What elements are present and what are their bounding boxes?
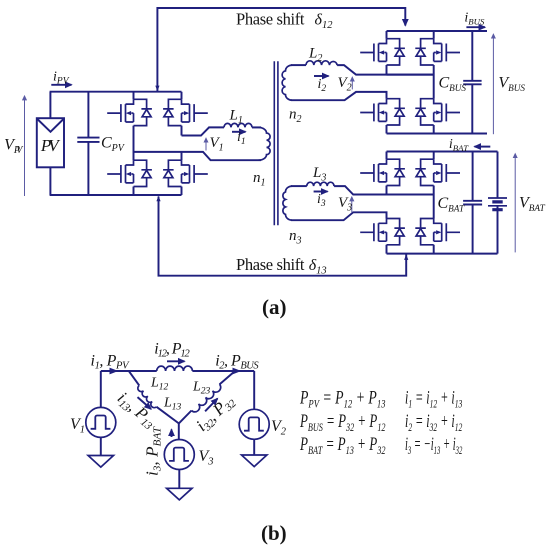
svg-text:L12: L12 [150,376,169,393]
inductor L23 [192,384,223,414]
svg-text:VBUS: VBUS [498,75,525,94]
svg-text:CBAT: CBAT [438,195,466,214]
wire branch L23 (node2 to node3) [179,371,235,423]
inductor L1 [224,123,252,127]
svg-text:V3: V3 [338,195,352,214]
capacitor CBUS [463,31,481,134]
svg-text:VPV: VPV [4,137,24,157]
svg-text:V2: V2 [338,75,352,94]
arrow VPV [24,97,26,197]
svg-text:(b): (b) [261,521,287,545]
ground V3 [167,488,192,500]
svg-text:CBUS: CBUS [439,75,467,94]
svg-text:i13, P13: i13, P13 [113,388,161,433]
wire bridge1 output upper lead [182,127,225,135]
bridge 2 left leg wire [386,31,388,134]
svg-text:δ13: δ13 [309,257,327,277]
inductor L12 [157,366,193,371]
wire L1 to winding [252,126,261,128]
svg-text:n1: n1 [253,170,266,189]
svg-text:δ12: δ12 [315,12,334,32]
transformer winding n2 [282,65,292,100]
svg-text:PBUS = P32 + P12: PBUS = P32 + P12 [299,411,385,434]
svg-text:V1: V1 [70,416,85,436]
svg-text:iBAT: iBAT [449,137,469,153]
arrowhead phase-shift into bridge1 top rail [155,86,159,92]
battery VBAT symbol [488,152,507,254]
transformer core [274,61,278,225]
arrow i12 curved [167,360,185,362]
wire V3 to ground [178,470,180,489]
bridge 2 rails [387,31,488,134]
svg-text:i3, PBAT: i3, PBAT [143,426,164,476]
svg-text:i12, P12: i12, P12 [154,341,190,360]
svg-text:V3: V3 [199,448,214,468]
transistor bridge3 lower-left [360,219,405,245]
PV module symbol [37,118,64,167]
inductor L13 [136,385,156,409]
transistor bridge1 upper-right [163,99,208,125]
svg-text:iBUS: iBUS [464,11,485,27]
transistor bridge3 upper-left [360,159,405,185]
svg-text:Phase shift: Phase shift [236,10,305,29]
bridge 1 right leg wire [181,92,183,195]
svg-text:L1: L1 [229,108,243,127]
svg-text:iPV: iPV [53,70,70,87]
arrow V1 [205,139,207,151]
transistor bridge2 lower-left [360,99,405,125]
svg-text:i3: i3 [317,192,326,209]
wire bridge1 output lower lead [134,152,262,160]
bridge 3 left leg wire [386,152,388,254]
svg-text:i2 = i32 + i12: i2 = i32 + i12 [405,411,462,434]
svg-text:i1, PPV: i1, PPV [91,353,131,372]
svg-text:Phase shift: Phase shift [236,255,305,274]
wire branch L13 (node1 to node3) [129,371,179,423]
arrow iBUS [466,26,485,28]
capacitor CBAT [463,152,482,254]
wire node1 to V1 [100,371,102,407]
arrow V2 [351,78,353,90]
svg-text:i3 = −i13 + i32: i3 = −i13 + i32 [405,434,462,457]
transistor bridge2 upper-right [415,39,460,65]
svg-text:i2: i2 [318,77,327,94]
arrow i1 on wire [110,368,119,375]
svg-text:PBAT = P13 + P32: PBAT = P13 + P32 [299,434,385,457]
wire bottom phase-shift link [159,197,407,276]
svg-text:VBAT: VBAT [519,195,546,214]
wire V2 to ground [253,439,255,455]
wire n3 top lead [291,185,307,187]
wire V1 to ground [100,437,102,455]
transistor bridge3 upper-right [415,159,460,185]
arrow i3 [314,191,328,193]
arrow i3 up [171,430,173,438]
source V2 [239,409,269,439]
arrowhead phase-shift into bridge3 bottom rail [404,254,408,260]
bridge 1 left leg wire [133,92,135,195]
wire node3 to V3 [178,423,180,440]
arrow i1 [232,131,246,133]
transformer winding n3 [283,186,292,220]
svg-text:L23: L23 [192,380,211,397]
wire n2 top lead [291,64,306,66]
svg-text:L3: L3 [312,165,326,184]
arrow i13 [138,397,152,409]
wire bridge2 upper lead inner [387,74,434,76]
arrow VBUS [492,35,494,134]
inductor L3 [307,182,334,186]
bridge 3 rails [387,152,498,254]
svg-text:i2, PBUS: i2, PBUS [215,353,259,372]
wire DC bus top rail (PV side) [50,91,182,93]
svg-text:n3: n3 [289,228,302,247]
svg-text:(a): (a) [262,295,287,319]
arrow V3 [351,198,353,213]
svg-text:L2: L2 [308,46,322,65]
wire n2 bottom lead to bridge2 [291,92,387,100]
source V1 [86,407,116,437]
svg-text:n2: n2 [289,107,302,126]
svg-text:V2: V2 [271,418,287,438]
capacitor CPV [77,92,99,195]
wire DC bus bottom rail (PV side) [50,194,182,196]
transistor bridge2 upper-left [360,39,405,65]
transistor bridge1 lower-left [107,160,152,186]
bridge 2 right leg wire [433,31,435,134]
arrow iBAT [475,146,491,148]
wire n3 bottom lead to bridge3 [291,212,387,220]
arrow VBAT [514,154,516,252]
ground V2 [242,455,267,467]
wire PV to rails [49,92,51,195]
svg-text:V1: V1 [210,135,224,154]
ground V1 [88,456,113,468]
wire node1 to node2 top [101,370,254,372]
svg-text:CPV: CPV [101,135,126,155]
arrow iPV [51,84,71,86]
svg-text:PPV = P12 + P13: PPV = P12 + P13 [299,388,385,411]
wire L3 to bridge3 upper lead [334,186,434,194]
arrowhead phase-shift into bridge1 bottom rail [156,196,160,202]
svg-text:i1 = i12 + i13: i1 = i12 + i13 [405,388,462,411]
svg-text:i32, P32: i32, P32 [192,391,239,437]
svg-text:L13: L13 [163,396,182,413]
transistor bridge2 lower-right [415,99,460,125]
transformer winding n1 [252,127,270,160]
transistor bridge1 upper-left [107,99,152,125]
wire top phase-shift link [157,8,405,91]
wire node2 to V2 [253,371,255,410]
transistor bridge3 lower-right [415,219,460,245]
svg-text:PV: PV [40,136,61,155]
arrow i2 [314,75,329,77]
transistor bridge1 lower-right [163,160,208,186]
wire L2 to bridge2 upper lead [337,65,434,75]
inductor L2 [306,61,337,65]
arrow i32 [205,399,217,412]
arrow i2 on wire [233,368,242,375]
source V3 [164,440,194,470]
bridge 3 right leg wire [433,152,435,254]
